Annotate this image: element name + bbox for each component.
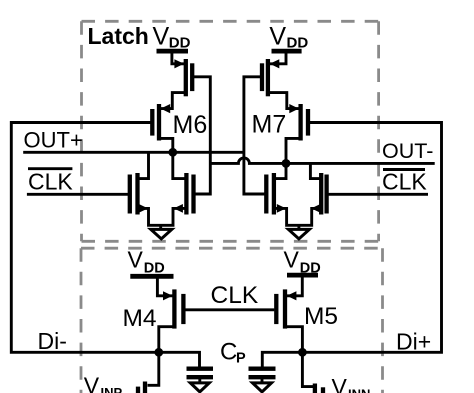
svg-text:CLK: CLK [211,282,259,309]
svg-text:INP: INP [101,385,123,393]
svg-text:Di+: Di+ [396,328,431,354]
svg-text:V: V [153,23,170,51]
svg-text:M4: M4 [123,305,157,332]
svg-text:INN: INN [348,387,370,393]
svg-text:M5: M5 [304,303,338,330]
svg-text:M7: M7 [252,110,287,138]
svg-text:C: C [220,339,237,366]
svg-text:V: V [284,247,300,273]
svg-text:V: V [332,374,348,393]
svg-text:Latch: Latch [88,23,149,49]
svg-text:P: P [236,351,246,367]
svg-text:Di-: Di- [38,328,67,354]
svg-text:OUT+: OUT+ [24,127,83,152]
svg-text:V: V [128,247,144,273]
svg-text:DD: DD [144,261,165,277]
svg-text:M6: M6 [173,111,208,139]
svg-text:CLK: CLK [382,169,427,195]
svg-text:DD: DD [300,261,321,277]
svg-text:DD: DD [169,35,191,52]
svg-text:OUT-: OUT- [382,139,433,163]
svg-text:CLK: CLK [28,168,73,194]
svg-text:DD: DD [287,35,309,52]
svg-text:V: V [84,373,100,393]
svg-text:V: V [269,23,286,51]
